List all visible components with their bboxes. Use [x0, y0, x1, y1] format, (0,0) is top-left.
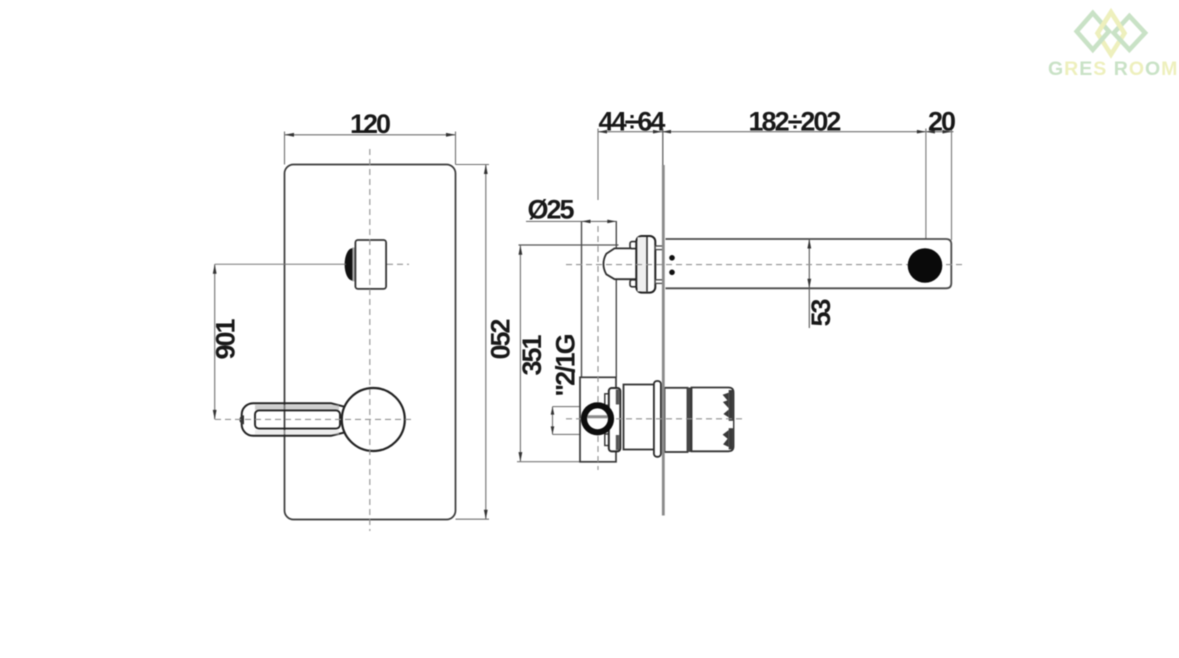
svg-text:182÷202: 182÷202	[749, 107, 841, 137]
logo diamond right (green)	[1114, 16, 1145, 50]
plate vertical centerline	[369, 149, 371, 531]
lever bottom shade band	[255, 430, 339, 435]
flange at wall	[654, 381, 661, 457]
extension line left of 44÷64	[597, 129, 599, 201]
svg-text:120: 120	[350, 109, 390, 139]
socket step lower	[605, 434, 610, 446]
valve thread break upper	[729, 390, 733, 449]
extension line outlet center	[925, 129, 927, 251]
plate	[285, 165, 456, 520]
arrows 182÷202 and 20	[917, 130, 926, 134]
G1/2 ring	[584, 405, 611, 432]
outlet circle	[908, 248, 943, 283]
dimension 35 line	[808, 239, 810, 328]
valve end cap	[692, 388, 734, 452]
handle lever outer	[242, 403, 345, 436]
connector step upper	[655, 246, 663, 250]
Ø25 dimension line	[526, 220, 617, 222]
valve bracket	[580, 377, 616, 462]
svg-text:351: 351	[517, 334, 547, 375]
dimension 153 bottom extension	[517, 461, 580, 463]
dimension 250 extension lines	[456, 164, 490, 166]
connector step lower	[655, 280, 663, 284]
ring inner band	[588, 415, 608, 418]
svg-text:53: 53	[806, 299, 836, 327]
riser pipe left wall / Ø25 extension	[581, 221, 583, 377]
knob extension line	[215, 263, 346, 265]
escutcheon shade	[638, 237, 647, 291]
spout body	[666, 239, 952, 288]
knob lens (black)	[345, 248, 353, 280]
logo diamond middle (yellow)	[1098, 12, 1125, 54]
svg-text:20: 20	[928, 107, 955, 137]
riser pipe cap line	[519, 244, 619, 246]
mount tab lower	[630, 280, 637, 287]
svg-text:44÷64: 44÷64	[599, 107, 666, 137]
handle circle	[342, 388, 405, 451]
socket	[609, 388, 621, 451]
svg-text:GRES ROOM: GRES ROOM	[1048, 58, 1178, 80]
G1/2 dimension line	[552, 407, 554, 435]
socket step upper	[605, 394, 610, 406]
knob centerline dashes	[387, 263, 409, 265]
dimension 120 extension lines	[284, 132, 286, 165]
valve piece right of wall	[665, 388, 688, 452]
socket shade lower	[616, 435, 619, 450]
svg-text:"2/1G: "2/1G	[551, 334, 581, 396]
dimension 109 line	[214, 264, 216, 419]
socket shade upper	[616, 390, 619, 405]
valve divider band	[687, 388, 691, 453]
lever tip nub	[239, 415, 244, 424]
G1/2 extension lines	[553, 406, 588, 408]
knob plate rect	[355, 240, 386, 289]
logo diamond left (green)	[1077, 13, 1109, 50]
knob step (gray)	[352, 248, 358, 282]
escutcheon face line	[646, 237, 648, 292]
svg-text:Ø25: Ø25	[527, 195, 574, 225]
riser pipe right wall / Ø25 extension	[615, 221, 617, 377]
valve horizontal centerline	[566, 418, 744, 420]
dimension 250 line	[485, 165, 487, 520]
wall line upper thin	[662, 129, 664, 166]
spout centerline	[566, 264, 966, 266]
cartridge mid section	[624, 385, 655, 450]
top dimension chain line	[598, 131, 954, 133]
valve vertical centerline	[597, 226, 599, 470]
extension line spout tip	[951, 129, 953, 241]
svg-text:901: 901	[211, 318, 241, 359]
spout dots	[669, 255, 675, 261]
mount tab upper	[630, 242, 637, 249]
arrows 44÷64	[598, 130, 607, 134]
escutcheon capsule	[636, 236, 655, 293]
handle horizontal centerline	[215, 418, 411, 420]
wall line	[662, 165, 665, 516]
svg-text:052: 052	[486, 319, 516, 359]
dimension 153 line	[519, 245, 521, 461]
logo yellow over-crossing edges	[1098, 12, 1125, 33]
dimension 120 line	[285, 134, 456, 136]
spout nose	[603, 248, 636, 279]
lever top shade band	[255, 405, 339, 410]
lever inner slot	[255, 410, 340, 428]
